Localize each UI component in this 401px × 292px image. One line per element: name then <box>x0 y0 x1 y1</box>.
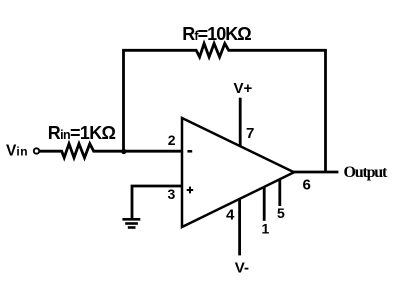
svg-text:7: 7 <box>246 125 254 142</box>
svg-text:Output: Output <box>344 164 388 181</box>
svg-text:4: 4 <box>226 207 235 224</box>
svg-text:Vin: Vin <box>6 142 28 159</box>
svg-text:V+: V+ <box>234 80 253 97</box>
svg-text:Rin=1KΩ: Rin=1KΩ <box>48 123 116 143</box>
svg-text:6: 6 <box>303 176 311 193</box>
svg-text:Rf=10KΩ: Rf=10KΩ <box>182 24 251 44</box>
svg-text:2: 2 <box>168 132 176 148</box>
svg-text:1: 1 <box>262 221 270 237</box>
svg-text:V-: V- <box>235 259 249 276</box>
svg-text:3: 3 <box>168 186 176 202</box>
svg-text:5: 5 <box>277 205 285 221</box>
